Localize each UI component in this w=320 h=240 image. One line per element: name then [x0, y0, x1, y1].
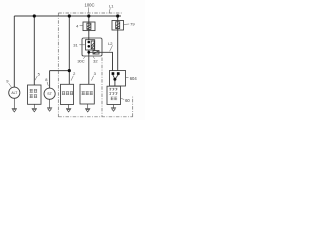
svg-text:L1: L1 — [109, 4, 114, 9]
svg-text:79: 79 — [130, 22, 135, 27]
svg-text:ST: ST — [47, 92, 52, 96]
svg-text:L2: L2 — [108, 41, 113, 46]
svg-text:30C: 30C — [77, 59, 84, 64]
svg-text:100C: 100C — [84, 3, 94, 8]
svg-text:60: 60 — [125, 98, 130, 103]
svg-text:604: 604 — [130, 76, 138, 81]
svg-text:31: 31 — [73, 42, 78, 47]
svg-text:ALT: ALT — [11, 91, 17, 95]
svg-text:32: 32 — [93, 59, 98, 64]
